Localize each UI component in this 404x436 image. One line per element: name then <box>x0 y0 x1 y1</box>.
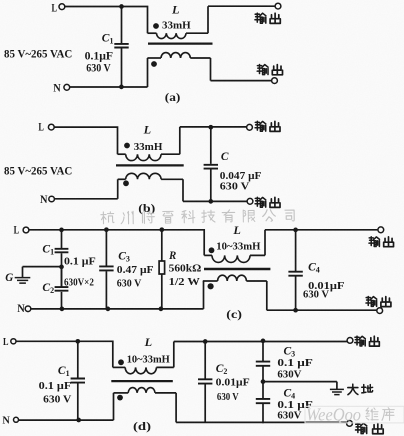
phase dot bottom (a) <box>151 61 157 67</box>
junction C4 top (c) <box>293 228 298 233</box>
wire L to choke (d) <box>16 341 113 367</box>
phase dot bottom (b) <box>123 180 129 186</box>
text 输出 bottom (d) <box>356 423 384 434</box>
capacitor C2 (d) <box>198 379 212 383</box>
choke core (a) <box>148 42 213 44</box>
text 输出 top (c) <box>369 237 394 247</box>
junction C1 bottom (d) <box>76 418 81 423</box>
junction C1 top (a) <box>119 4 124 9</box>
choke left vertical bottom (b) <box>117 179 119 199</box>
capacitor C4 (c) branch wire <box>295 230 297 310</box>
inductor choke L (c) top winding <box>204 230 377 263</box>
phase dot bottom (c) <box>208 283 214 289</box>
inductor choke L (a) bottom winding <box>147 53 271 81</box>
junction C2 bottom (c) <box>60 307 65 312</box>
phase dot top (d) <box>118 359 124 365</box>
phase dot top (a) <box>153 23 159 29</box>
inductor choke L (d) top winding <box>113 342 347 374</box>
capacitor C3 (c) branch wire <box>105 230 107 309</box>
terminal L (a) <box>59 4 65 10</box>
output terminal top (d) <box>347 338 353 344</box>
junction ground mid (c) <box>59 265 64 270</box>
resistor R (c) branch wire <box>161 230 163 309</box>
junction C3 bottom (c) <box>106 307 111 312</box>
scan noise overlay <box>0 0 1 1</box>
wire L to choke (b) <box>54 127 117 154</box>
capacitor C3 (d) branch wire <box>262 341 264 423</box>
junction C1 top (d) <box>75 339 80 344</box>
junction C top (b) <box>208 125 213 130</box>
watermark box <box>305 406 404 423</box>
inductor choke L (b) bottom winding <box>118 173 247 201</box>
junction R top (c) <box>159 227 164 232</box>
junction C4 bottom (c) <box>293 308 298 313</box>
choke left vertical bottom (c) <box>203 281 205 309</box>
capacitor C (b) <box>204 165 218 169</box>
output terminal bottom (b) <box>247 198 253 204</box>
inductor choke L (b) top winding <box>118 127 247 161</box>
ground symbol G (c) <box>15 278 31 284</box>
junction C1 bottom (a) <box>119 85 124 90</box>
watermark 杭州将睿科技有限公司 <box>101 209 294 224</box>
terminal L (b) <box>48 124 54 130</box>
phase dot top (c) <box>209 247 215 253</box>
terminal N (b) <box>49 196 55 202</box>
junction C3 top (d) <box>261 339 266 344</box>
inductor choke L (a) top winding <box>148 6 276 38</box>
terminal N (a) <box>64 84 70 90</box>
capacitor C2 (c) <box>55 287 69 291</box>
choke core (c) <box>204 268 270 270</box>
capacitor C1 (a) branch wire <box>121 7 123 87</box>
output terminal top (b) <box>247 124 253 130</box>
inductor choke L (d) bottom winding <box>114 388 347 423</box>
wire choke to N side (a) <box>70 58 148 87</box>
text 输出 top (a) <box>255 13 280 23</box>
capacitor C3 (c) <box>99 266 113 270</box>
choke core (d) <box>111 380 173 382</box>
capacitor C1 (d) <box>71 379 85 383</box>
terminal N (d) <box>14 417 19 422</box>
output terminal bottom (a) <box>272 78 278 84</box>
wire N to choke (b) <box>54 198 117 200</box>
capacitor C (b) branch wire <box>210 127 212 201</box>
capacitor C4 (d) <box>256 399 270 403</box>
junction earth mid (d) <box>261 379 266 384</box>
terminal N (c) <box>25 306 31 312</box>
junction C2 top (d) <box>203 339 208 344</box>
capacitor C3 (d) <box>256 362 270 366</box>
choke core (b) <box>116 164 184 166</box>
text 输出 bottom (a) <box>257 65 282 75</box>
output terminal bottom (d) <box>347 421 353 427</box>
capacitor C1 (c) <box>55 249 69 253</box>
watermark 维库 <box>366 408 394 421</box>
text 输出 top (b) <box>255 121 280 131</box>
wire L to choke (c) <box>29 230 204 256</box>
capacitor C1 (a) <box>114 44 128 48</box>
inductor choke L (c) bottom winding <box>203 275 377 310</box>
wire to earth (d) <box>263 382 337 389</box>
phase dot top (b) <box>124 143 130 149</box>
text 输出 top (d) <box>355 336 380 346</box>
capacitor C2 (c) branch wire <box>61 267 63 309</box>
earth ground symbol (d) <box>330 389 344 394</box>
choke left vertical bottom (d) <box>18 393 113 420</box>
output terminal top (c) <box>378 227 384 233</box>
wire to ground G (c) <box>23 267 62 277</box>
output terminal bottom (c) <box>377 308 383 314</box>
phase dot bottom (d) <box>117 395 123 401</box>
wire N to choke (c) <box>31 308 204 310</box>
terminal L (c) <box>23 227 29 233</box>
capacitor C4 (c) <box>288 272 302 276</box>
junction C3 top (c) <box>104 227 109 232</box>
resistor R (c) body <box>159 261 165 274</box>
text 大地 <box>348 384 373 394</box>
capacitor C1 (d) branch wire <box>77 341 79 420</box>
text 输出 bottom (c) <box>366 296 391 306</box>
junction C bottom (b) <box>208 199 213 204</box>
junction C1 top (c) <box>59 228 64 233</box>
capacitor C1 (c) branch wire <box>61 230 63 287</box>
terminal L (d) <box>11 339 16 344</box>
text 输出 bottom (b) <box>255 197 280 207</box>
output terminal top (a) <box>275 3 281 9</box>
junction R bottom (c) <box>159 307 164 312</box>
wire L to choke (a) <box>65 7 148 34</box>
capacitor C2 (d) branch wire <box>204 342 206 423</box>
